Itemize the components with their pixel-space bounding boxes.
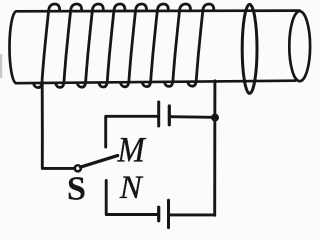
coil turn 4 xyxy=(99,4,125,87)
coil turn 5 xyxy=(121,4,147,87)
solenoid core: cylinder body (left cap, top edge, bottom edge) xyxy=(9,11,299,84)
coil turn 1 xyxy=(34,4,60,88)
junction node (dot) xyxy=(211,114,219,122)
coil turn 3 xyxy=(77,4,103,87)
contact M stub and wire to battery B1 xyxy=(106,116,157,147)
solenoid core: right rim ellipse xyxy=(289,11,310,81)
coil turn 6 xyxy=(142,4,168,87)
scan smudge at left edge xyxy=(0,54,2,78)
svg-text:N: N xyxy=(119,170,144,206)
coil turn 7 xyxy=(165,4,191,86)
battery B1 long plate (left) xyxy=(157,102,160,126)
coil turn 8 xyxy=(188,4,214,86)
wire: battery B1 to junction xyxy=(171,115,213,119)
svg-text:M: M xyxy=(117,130,147,170)
wire: right lead from coil through junction down to bottom branch xyxy=(213,81,216,216)
switch S: arm xyxy=(81,156,118,168)
svg-text:S: S xyxy=(67,171,86,208)
battery B2 long plate (right) xyxy=(167,200,170,227)
battery B1 short plate (right) xyxy=(168,106,171,125)
contact N stub and wire to battery B2 xyxy=(106,181,157,215)
wire: left lead from coil down and across to switch pivot xyxy=(42,82,75,168)
switch S: pivot circle xyxy=(75,165,81,171)
wire: battery B2 to bottom-right corner xyxy=(170,213,215,216)
coil turn 2 xyxy=(56,4,82,87)
battery B2 short plate (left) xyxy=(157,207,160,221)
coil turn 9 (end loop, full ellipse) xyxy=(242,4,257,93)
